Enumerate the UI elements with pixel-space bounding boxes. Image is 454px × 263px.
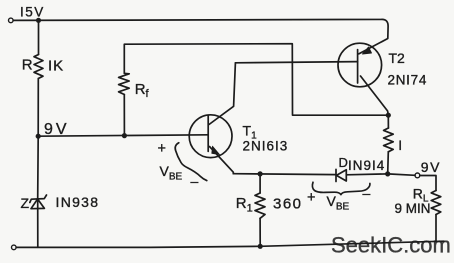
resistor R 1K [34,55,43,79]
svg-text:IN938: IN938 [56,194,100,210]
wire: RL bottom lead [435,215,437,242]
T1 emitter lead [210,147,234,174]
wire: T2 base wire [235,62,357,63]
T2 collector lead [361,76,389,115]
svg-text:IN9I4: IN9I4 [348,158,385,173]
svg-text:VBE: VBE [327,193,350,213]
svg-text:Rf: Rf [135,81,150,100]
node: T2 collector junction [386,113,391,118]
resistor R1 360 [255,193,265,218]
node: R1 bottom junction [258,244,263,249]
svg-text:+: + [158,141,166,157]
node: Rf bottom junction [122,133,127,138]
svg-text:–: – [191,173,199,189]
wire: junction to 9V terminal [388,174,415,175]
wire: top rail 15V [13,19,388,53]
brace: VBE under diode [312,182,370,194]
svg-text:SeekIC.com: SeekIC.com [331,233,451,258]
svg-text:D: D [339,155,348,170]
svg-text:2NI74: 2NI74 [388,73,428,88]
transistor T2 circle [338,43,382,87]
wire: Rf bottom lead [123,95,125,136]
svg-text:–: – [363,185,371,201]
terminal: 15V input [9,18,14,23]
wire: bottom rail [16,241,444,247]
svg-text:R1: R1 [236,195,253,215]
node: top-left junction [36,18,41,23]
svg-text:9V: 9V [421,159,441,175]
svg-text:I: I [398,137,402,153]
terminal: 9V output [415,173,420,178]
T2 emitter arrow [362,47,371,54]
brace: VBE near T1 [175,143,207,181]
svg-text:360: 360 [273,196,303,213]
wire: 9V horizontal line to T1 base [38,135,208,136]
terminal: bottom left [12,245,17,250]
T1 emitter arrow [212,146,220,154]
wire: zener to bottom rail [37,199,39,248]
svg-text:R: R [22,56,33,73]
wire: R bottom to 9V node [37,79,39,137]
wire: R1 top lead [259,174,261,193]
svg-text:IK: IK [48,58,64,75]
T1 base bar [207,116,209,152]
wire: left rail upper [38,20,40,54]
wire: diode to 1-ohm node [346,173,387,176]
svg-text:+: + [307,190,315,206]
transistor T1 circle [189,115,232,158]
svg-text:I5V: I5V [20,5,45,20]
node: 9V left junction [36,134,41,139]
diode D 1N914 triangle [336,170,346,181]
T1 collector lead and riser to T2 base wire [209,63,235,125]
node: R1 top junction [258,171,263,176]
svg-text:Z: Z [21,195,30,211]
wire: R1 bottom lead [259,218,261,246]
diode D 1N914 cathode bar [335,169,337,181]
wire: resistor 1 bottom lead [387,152,390,174]
wire: left rail lower (9V node to zener) [37,136,40,198]
resistor Rf [119,73,130,94]
svg-text:2NI6I3: 2NI6I3 [243,138,289,153]
svg-text:9 MIN: 9 MIN [395,201,431,216]
T2 base bar [357,50,359,83]
svg-text:9V: 9V [44,121,70,138]
wire: 9V terminal to RL [420,176,436,191]
resistor RL [431,191,441,215]
svg-text:VBE: VBE [160,163,183,183]
resistor 1 [384,128,394,152]
wire: emitter node horizontal [233,173,336,176]
wire: Rf top feedback path to T2 collector node [124,44,388,116]
svg-text:T2: T2 [389,50,406,66]
wire: resistor 1 top lead [387,115,389,128]
node: diode-right junction [385,171,390,176]
zener diode Z 1N938 [30,195,47,203]
